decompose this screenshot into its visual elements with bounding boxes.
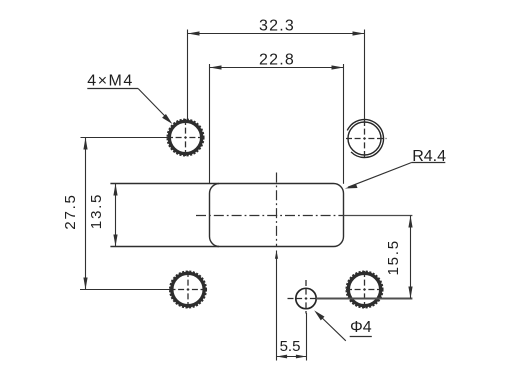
dimension 22.8 extension line left bbox=[209, 64, 211, 184]
hole top-right centerlines bbox=[346, 120, 387, 157]
dimension 15.5 extension line bottom (hole line extended) bbox=[316, 298, 412, 300]
dimension 15.5 arrow top bbox=[408, 216, 412, 228]
dimension 27.5 extension line top bbox=[81, 137, 168, 139]
dimension 27.5 line bbox=[85, 138, 87, 290]
dimension 5.5 extension line right (small hole centerline down) bbox=[306, 313, 308, 361]
slot horizontal centerline bbox=[196, 215, 344, 217]
dimension 13.5 arrow top bbox=[113, 184, 117, 196]
dimension 27.5 arrow top bbox=[83, 138, 87, 150]
label R4.4 leader bbox=[348, 163, 412, 188]
svg-text:Φ4: Φ4 bbox=[350, 319, 372, 336]
label R4.4 underline bbox=[412, 162, 446, 164]
label 4xM4 leader arrow bbox=[162, 114, 172, 124]
dimension 27.5 arrow bottom bbox=[83, 278, 87, 290]
hole top-left M4 (thick thread ring) bbox=[167, 119, 203, 155]
dimension 32.3 extension line left bbox=[187, 30, 189, 120]
dimension 15.5 arrow bottom bbox=[408, 287, 412, 299]
slot cutout rounded rectangle bbox=[210, 184, 344, 247]
dimension 32.3 line bbox=[188, 33, 365, 35]
hole top-left centerlines bbox=[167, 119, 204, 156]
dimension 22.8 extension line right bbox=[343, 64, 345, 184]
dimension 32.3 extension line right bbox=[364, 30, 366, 120]
svg-text:5.5: 5.5 bbox=[280, 338, 301, 355]
label 4xM4 underline bbox=[87, 88, 138, 90]
dimension 15.5 line bbox=[410, 216, 412, 299]
dimension 15.5 extension line top (slot centerline extended) bbox=[344, 215, 413, 217]
svg-text:15.5: 15.5 bbox=[385, 239, 402, 275]
dimension 5.5 extension line left (slot centerline extended down) bbox=[276, 251, 278, 361]
dimension 27.5 extension line bottom bbox=[80, 289, 170, 291]
arrow up at slot bottom on centerline bbox=[275, 251, 278, 259]
hole bottom-right centerlines bbox=[346, 271, 383, 308]
dimension 32.3 arrow left bbox=[188, 31, 200, 35]
label phi4 underline bbox=[350, 336, 372, 338]
hole bottom-left M4 (thick thread ring) bbox=[170, 271, 206, 307]
svg-text:13.5: 13.5 bbox=[88, 193, 105, 229]
svg-text:27.5: 27.5 bbox=[62, 193, 79, 229]
label phi4 leader arrow bbox=[314, 310, 324, 320]
small hole phi4 bbox=[296, 288, 316, 308]
dimension 32.3 arrow right bbox=[353, 31, 365, 35]
hole bottom-left centerlines bbox=[170, 271, 207, 308]
dimension 22.8 arrow left bbox=[210, 65, 222, 69]
dimension 5.5 arrow left bbox=[277, 355, 288, 359]
dimension 13.5 extension line top (rect top extended) bbox=[110, 183, 219, 185]
dimension 22.8 line bbox=[210, 67, 344, 69]
hole bottom-right M4 (thick thread ring) bbox=[346, 271, 382, 307]
dimension 22.8 arrow right bbox=[332, 65, 344, 69]
label R4.4 leader arrow bbox=[345, 184, 358, 189]
dimension 13.5 line bbox=[115, 184, 117, 247]
small hole centerlines bbox=[288, 280, 319, 314]
hole top-right M4 (drill circle + thread arc) bbox=[347, 120, 383, 158]
dimension 13.5 arrow bottom bbox=[113, 235, 117, 247]
dimension 5.5 line bbox=[277, 356, 307, 358]
svg-text:22.8: 22.8 bbox=[259, 52, 295, 69]
label phi4 leader bbox=[317, 313, 346, 341]
svg-text:4×M4: 4×M4 bbox=[87, 72, 133, 89]
dimension 13.5 extension line bottom (rect bottom extended) bbox=[110, 246, 219, 248]
svg-text:32.3: 32.3 bbox=[259, 18, 295, 35]
slot vertical centerline bbox=[276, 173, 278, 247]
dimension 5.5 arrow right bbox=[296, 355, 307, 359]
label 4xM4 leader bbox=[138, 89, 169, 121]
